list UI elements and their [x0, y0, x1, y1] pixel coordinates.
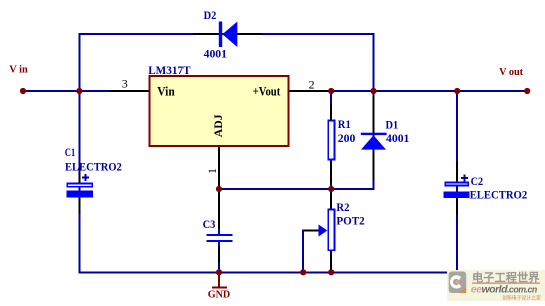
- wire left vertical (Vin branch through C1): [78, 33, 80, 273]
- pin 3 lead: [109, 90, 150, 92]
- ground symbol: [212, 272, 227, 287]
- svg-text:C2: C2: [471, 174, 484, 188]
- svg-text:D2: D2: [204, 8, 217, 22]
- svg-text:ELECTRO2: ELECTRO2: [470, 188, 528, 202]
- net label V in: [9, 63, 28, 75]
- node junction pin1/C3: [216, 186, 222, 192]
- label +Vout (pin name): [253, 84, 281, 98]
- label D1: [386, 117, 399, 131]
- svg-text:ADJ: ADJ: [211, 114, 225, 137]
- net label V out: [499, 66, 523, 78]
- diode D1 symbol: [361, 133, 387, 150]
- potentiometer R2 wiper arrow: [319, 225, 328, 237]
- value POT2: [336, 214, 364, 228]
- node Vin terminal: [20, 88, 26, 94]
- svg-text:Vin: Vin: [157, 84, 175, 98]
- potentiometer R2 body: [328, 210, 334, 251]
- svg-text:LM317T: LM317T: [148, 63, 190, 77]
- node Vout terminal: [524, 88, 530, 94]
- svg-text:V in: V in: [9, 63, 28, 75]
- label C2: [471, 174, 484, 188]
- label GND: [208, 289, 230, 301]
- svg-text:200: 200: [338, 131, 356, 145]
- wire top rail from left vertical to D1 branch: [78, 33, 374, 35]
- wire R2 branch: [330, 189, 332, 272]
- svg-text:eeworld.com.cn: eeworld.com.cn: [471, 284, 537, 296]
- svg-text:GND: GND: [208, 289, 230, 301]
- node junction R2 bottom: [328, 269, 334, 275]
- svg-text:R2: R2: [336, 200, 349, 214]
- svg-text:1: 1: [205, 168, 219, 174]
- diode D2 pins: [193, 33, 262, 35]
- node junction GND: [216, 269, 222, 275]
- pin 2 lead: [289, 90, 332, 92]
- node junction wiper/ground: [300, 269, 306, 275]
- wire output rail to Vout: [331, 90, 527, 92]
- svg-text:D1: D1: [386, 117, 399, 131]
- svg-text:+Vout: +Vout: [253, 84, 281, 98]
- wire R2 wiper to ground rail: [303, 230, 318, 273]
- wire input rail Vin to pin 3: [23, 90, 109, 92]
- label D2: [204, 8, 217, 22]
- node junction C2 top: [454, 88, 460, 94]
- wire ADJ feedback rail: [219, 188, 375, 190]
- svg-text:POT2: POT2: [336, 214, 364, 228]
- capacitor C3 symbol: [206, 235, 232, 241]
- value 4001 (D1): [386, 131, 409, 145]
- label Vin (pin name): [157, 84, 175, 98]
- value ELECTRO2 (C2): [470, 188, 528, 202]
- label R1: [338, 117, 351, 131]
- node junction D1 top: [370, 88, 376, 94]
- label C3: [203, 217, 216, 231]
- svg-text:4001: 4001: [386, 131, 409, 145]
- svg-text:创新电子设计之家: 创新电子设计之家: [502, 294, 541, 301]
- svg-text:2: 2: [309, 77, 315, 91]
- pin 1 lead: [218, 146, 220, 189]
- wire R1 branch: [330, 91, 332, 189]
- wire right vertical (Vout branch through C2): [456, 91, 458, 273]
- label LM317T: [148, 63, 190, 77]
- capacitor C1 symbol (electrolytic): [67, 174, 94, 197]
- wire bottom ground rail: [78, 271, 458, 273]
- label ADJ (pin name, rotated): [211, 114, 225, 137]
- svg-text:ELECTRO2: ELECTRO2: [65, 159, 122, 173]
- watermark eeworld logo: [447, 270, 545, 301]
- node junction R1/R2: [328, 186, 334, 192]
- svg-text:C1: C1: [65, 145, 75, 159]
- pin number 3: [122, 76, 128, 90]
- node junction C1/input: [76, 88, 82, 94]
- pin number 2: [309, 77, 315, 91]
- resistor R1 body: [328, 121, 334, 160]
- capacitor C2 symbol (electrolytic): [444, 175, 470, 199]
- label R2: [336, 200, 349, 214]
- node junction pin2/R1: [328, 88, 334, 94]
- svg-text:R1: R1: [338, 117, 351, 131]
- svg-text:4001: 4001: [204, 47, 227, 61]
- op-amp U1 LM317T regulator body: [150, 76, 289, 146]
- wire D1 branch vertical: [373, 34, 375, 189]
- value ELECTRO2 (C1): [65, 159, 122, 173]
- wire C3 branch: [218, 189, 220, 272]
- svg-text:V out: V out: [499, 66, 523, 78]
- pin number 1 (rotated): [205, 168, 219, 174]
- label C1: [65, 145, 75, 159]
- svg-text:C3: C3: [203, 217, 216, 231]
- value 200: [338, 131, 356, 145]
- svg-text:3: 3: [122, 76, 128, 90]
- diode D2 symbol: [219, 22, 238, 48]
- value 4001 (D2): [204, 47, 227, 61]
